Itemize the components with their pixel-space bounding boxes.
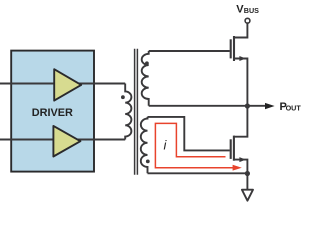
transistor Q2 channel bar — [233, 136, 235, 161]
transistor Q1 channel bar — [233, 36, 235, 61]
transformer T1 upper secondary winding — [142, 51, 149, 106]
svg-text:OUT: OUT — [286, 104, 302, 113]
transformer core — [135, 49, 138, 175]
transistor Q2 gate bar — [230, 139, 232, 159]
driver box — [11, 51, 94, 172]
transformer T1 primary winding — [125, 84, 131, 140]
primary polarity dot — [121, 95, 125, 99]
Q1 source arrow — [239, 56, 245, 61]
ground — [242, 190, 253, 201]
VBUS terminal circle — [245, 18, 250, 23]
wire: bottom return bus — [148, 172, 248, 174]
wire: upper driver output loop to transformer primary top — [0, 83, 125, 85]
wire: lower driver output loop from transformer primary bottom — [0, 139, 125, 141]
wire: Q2 source to ground node — [234, 160, 248, 174]
wire: output node line — [149, 105, 267, 107]
transformer T1 lower secondary winding — [141, 117, 148, 173]
wire: VBUS to Q1 drain — [234, 23, 247, 37]
node: ground junction dot — [245, 171, 250, 176]
arrow to POUT — [265, 103, 275, 109]
upper secondary polarity dot — [145, 61, 149, 65]
wire: lower gate drive with step — [148, 117, 230, 150]
svg-text:BUS: BUS — [244, 6, 259, 15]
red gate current loop — [155, 123, 233, 167]
buffer amplifier A2 (lower) — [53, 126, 80, 157]
transistor Q1 gate bar — [230, 39, 232, 58]
wire: upper gate drive — [149, 50, 230, 52]
wire: output node to Q2 drain — [234, 106, 248, 137]
node: output junction dot — [245, 103, 250, 108]
svg-text:DRIVER: DRIVER — [32, 107, 73, 119]
Q2 source arrow — [239, 157, 245, 162]
lower secondary polarity dot — [146, 160, 150, 164]
wire: to ground — [246, 174, 248, 190]
label POUT — [280, 101, 302, 113]
label VBUS — [236, 3, 259, 15]
red current arrowhead — [233, 165, 242, 171]
buffer amplifier A1 (upper) — [54, 69, 81, 100]
wire: Q1 source to output node — [234, 59, 247, 107]
